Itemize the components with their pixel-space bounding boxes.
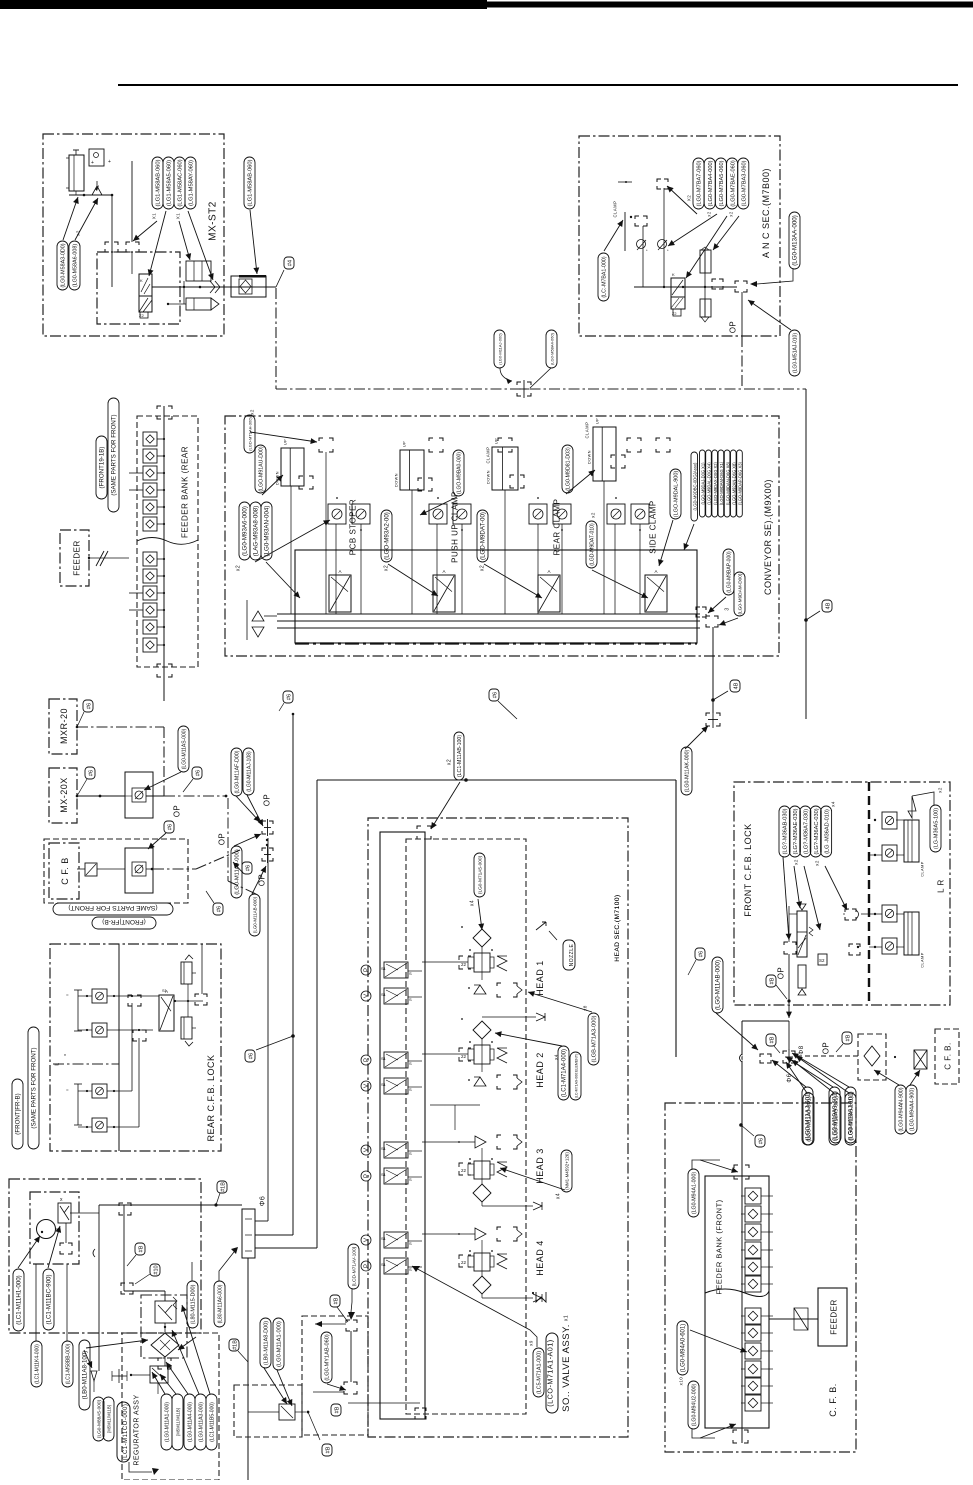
svg-text:(LG0-M9BAP-000): (LG0-M9BAP-000) [727, 551, 733, 593]
svg-text:(LGO-M9DAX-D0G X2): (LGO-M9DAX-D0G X2) [713, 461, 718, 504]
svg-text:SIDE CLAMP: SIDE CLAMP [649, 500, 658, 553]
svg-text:(LG0-M11AK-000): (LG0-M11AK-000) [685, 750, 691, 793]
svg-text:#6: #6 [86, 703, 92, 709]
svg-text:x2: x2 [447, 759, 453, 765]
svg-text:V: V [364, 1238, 370, 1242]
svg-text:(LG?-M36AC-030): (LG?-M36AC-030) [814, 808, 820, 854]
svg-text:x4: x4 [556, 1193, 562, 1199]
svg-text:S1: S1 [381, 1172, 387, 1177]
svg-text:S: S [409, 1241, 412, 1246]
svg-text:(LC:-M7BA1-000): (LC:-M7BA1-000) [602, 256, 608, 297]
svg-text:REAR CLAMP: REAR CLAMP [553, 498, 562, 555]
svg-text:x10: x10 [678, 1377, 683, 1386]
svg-text:(LG0-M94A1-000): (LG0-M94A1-000) [692, 1172, 698, 1215]
svg-text:CLAMP: CLAMP [920, 861, 924, 877]
svg-text:OP: OP [777, 967, 786, 980]
svg-text:(FRONT19-1B): (FRONT19-1B) [99, 447, 106, 489]
svg-text:OP: OP [822, 1042, 831, 1055]
svg-text:(LC1-M71A4-000): (LC1-M71A4-000) [562, 1049, 568, 1097]
svg-text:X2: X2 [686, 195, 691, 202]
svg-text:K: K [140, 278, 143, 283]
svg-text:X1: X1 [151, 213, 156, 220]
svg-text:OP: OP [729, 321, 738, 334]
svg-text:(LG0-M19A9-601): (LG0-M19A9-601) [832, 1091, 839, 1141]
svg-text:(LG1-M58AB-060): (LG1-M58AB-060) [156, 159, 162, 206]
svg-text:C F. B.: C F. B. [944, 1042, 953, 1070]
svg-text:#6: #6 [216, 906, 222, 912]
svg-text:NOZZLE: NOZZLE [569, 943, 575, 966]
svg-text:OP: OP [263, 794, 272, 807]
svg-text:3: 3 [725, 607, 731, 610]
svg-text:x2: x2 [236, 565, 242, 571]
svg-text:L: L [55, 1062, 61, 1065]
svg-text:x4: x4 [470, 900, 476, 906]
svg-text:(LG?-M36A7-030): (LG?-M36A7-030) [804, 809, 810, 854]
svg-text:S: S [409, 1087, 412, 1092]
svg-text:x9: x9 [528, 1340, 533, 1346]
svg-text:(LG1-M58A5-060): (LG1-M58A5-060) [167, 160, 173, 206]
svg-text:x2: x2 [814, 860, 819, 866]
svg-text:(LGB-M71A3-000): (LGB-M71A3-000) [592, 1015, 598, 1062]
svg-text:(LC5-M71A1-000): (LC5-M71A1-000) [537, 1351, 543, 1394]
svg-text:(LGD-M9DAT-010): (LGD-M9DAT-010) [590, 523, 596, 566]
svg-text:x2: x2 [937, 787, 942, 793]
svg-text:(LC1-M11CO-000): (LC1-M11CO-000) [123, 1404, 129, 1461]
svg-text:S1: S1 [162, 988, 168, 993]
svg-text:OP: OP [218, 833, 227, 846]
svg-text:x2: x2 [706, 211, 711, 217]
svg-text:#6: #6 [88, 770, 94, 776]
svg-text:HEAD 3: HEAD 3 [535, 1148, 545, 1184]
svg-text:MX-20X: MX-20X [59, 777, 69, 813]
svg-text:(LG0-M11A4-000): (LG0-M11A4-000) [188, 1402, 194, 1442]
svg-text:#6: #6 [195, 770, 201, 776]
svg-text:(LG0-M11AS-000): (LG0-M11AS-000) [182, 728, 188, 769]
svg-text:(LG0-M11AF-D00): (LG0-M11AF-D00) [235, 750, 241, 793]
svg-text:CLAMP: CLAMP [485, 447, 490, 464]
svg-text:(LG0-M11A3-000): (LG0-M11A3-000) [199, 1402, 205, 1442]
svg-text:S1: S1 [381, 992, 387, 997]
svg-text:(LG?-M36AE-030): (LG?-M36AE-030) [793, 808, 799, 854]
svg-text:(LG0-M94A0-601): (LG0-M94A0-601) [681, 1324, 687, 1372]
svg-text:(SAME PARTS FOR FRONT): (SAME PARTS FOR FRONT) [31, 1047, 38, 1128]
svg-text:(LG0-M11AJ-000): (LG0-M11AJ-000) [498, 333, 503, 365]
svg-text:22: 22 [461, 1260, 467, 1265]
svg-text:S2: S2 [819, 958, 825, 963]
svg-text:K: K [672, 272, 675, 277]
svg-text:(LGD-M9DAT-00): (LGD-M9DAT-00) [480, 512, 487, 560]
svg-text:(LGO-M9DAP-D6G X3): (LGO-M9DAP-D6G X3) [738, 461, 743, 504]
svg-text:V: V [364, 1148, 370, 1152]
svg-text:(LGO-M9DAL-900): (LGO-M9DAL-900) [674, 471, 680, 518]
svg-text:#B: #B [334, 1406, 340, 1413]
svg-text:(LC1-M11AB-100): (LC1-M11AB-100) [457, 735, 463, 777]
svg-text:#4: #4 [287, 260, 293, 266]
svg-text:REAR C.F.B. LOCK: REAR C.F.B. LOCK [206, 1054, 216, 1141]
svg-text:(LG0-M93AN-004): (LG0-M93AN-004) [264, 506, 271, 557]
svg-text:A N C SEC.(M7B00): A N C SEC.(M7B00) [761, 168, 771, 258]
svg-text:DOWN: DOWN [587, 450, 591, 464]
svg-text:HEAD 1: HEAD 1 [535, 960, 545, 996]
svg-text:x2: x2 [480, 565, 486, 571]
svg-text:A: A [654, 569, 657, 574]
svg-text:(LG1-M58AY-060): (LG1-M58AY-060) [189, 160, 195, 206]
svg-text:(LG0-M18AJ-101): (LG0-M18AJ-101) [848, 1091, 855, 1141]
svg-text:(LG0-M11A1-000): (LG0-M11A1-000) [165, 1402, 171, 1442]
svg-text:FRONT C.F.B. LOCK: FRONT C.F.B. LOCK [743, 823, 753, 916]
svg-text:REGURATOR ASSY: REGURATOR ASSY [133, 1394, 140, 1465]
svg-text:A: A [442, 569, 445, 574]
svg-text:(LC1-M11H1-000): (LC1-M11H1-000) [16, 1275, 23, 1324]
svg-text:(LG0-M13AA-000): (LG0-M13AA-000) [792, 215, 799, 266]
svg-text:MXR-20: MXR-20 [59, 708, 69, 744]
svg-text:(LC1-M58BB-000): (LC1-M58BB-000) [66, 1343, 72, 1384]
svg-text:x1: x1 [564, 1315, 570, 1321]
svg-text:(LG0-M9DAM-D00): (LG0-M9DAM-D00) [738, 573, 744, 614]
svg-text:#B: #B [325, 1446, 331, 1453]
svg-text:V: V [364, 1084, 370, 1088]
svg-text:=: = [66, 992, 69, 997]
svg-text:#B: #B [138, 1245, 144, 1252]
svg-text:#6: #6 [698, 951, 704, 957]
svg-text:4B: 4B [825, 602, 831, 609]
svg-text:S: S [409, 1177, 412, 1182]
svg-text:(LG1-M58AB-060): (LG1-M58AB-060) [248, 159, 254, 206]
svg-text:FEEDER: FEEDER [73, 540, 82, 575]
svg-text:+: + [91, 160, 94, 166]
svg-text:S1: S1 [381, 966, 387, 971]
svg-text:A: A [338, 569, 341, 574]
svg-text:(L80-M115-D00): (L80-M115-D00) [191, 1284, 197, 1324]
svg-text:(LG0-M11AJ-601): (LG0-M11AJ-601) [805, 1091, 812, 1140]
svg-text:(LG0-M7BA3-060): (LG0-M7BA3-060) [742, 160, 748, 206]
svg-text:(LG0-M7BA5-060): (LG0-M7BA5-060) [719, 160, 725, 206]
svg-text:(LG0-M51AJ-010): (LG0-M51AJ-010) [793, 333, 799, 373]
svg-text:(LC1-M11BC-900): (LC1-M11BC-900) [46, 1274, 53, 1324]
svg-text:CONVEYOR SE).(M9X00): CONVEYOR SE).(M9X00) [763, 479, 773, 595]
svg-text:(LC1-M11B5-000): (LC1-M11B5-000) [210, 1402, 216, 1442]
svg-text:*: * [64, 1054, 66, 1060]
svg-text:(LGO-M9DAJ-D0G X1): (LGO-M9DAJ-D0G X1) [701, 462, 706, 505]
svg-text:MX-ST2: MX-ST2 [207, 201, 218, 241]
svg-text:(LCD-M71AV-100): (LCD-M71AV-100) [352, 1246, 358, 1286]
svg-text:+: + [108, 159, 111, 165]
svg-text:UP: UP [595, 418, 599, 424]
svg-text:(NM1-M4592+120): (NM1-M4592+120) [565, 1152, 570, 1190]
svg-text:(LC1-M11K4-000): (LC1-M11K4-000) [35, 1344, 41, 1384]
svg-text:FEEDER BANK (FRONT): FEEDER BANK (FRONT) [714, 1199, 723, 1294]
svg-text:(LC-M71A9-000:ELEMENT): (LC-M71A9-000:ELEMENT) [575, 1054, 579, 1099]
svg-text:(M5M11/M11B): (M5M11/M11B) [176, 1407, 181, 1436]
svg-text:(LAG-M93A8-008): (LAG-M93A8-008) [253, 506, 260, 557]
svg-text:(LG0-M88A5-000): (LG0-M88A5-000) [97, 1399, 103, 1438]
svg-text:Z2: Z2 [672, 312, 676, 316]
svg-text:22: 22 [461, 1054, 467, 1059]
svg-text:S: S [409, 1267, 412, 1272]
svg-text:(LG0-M11AB-000): (LG0-M11AB-000) [715, 960, 722, 1010]
svg-text:Φ8: Φ8 [799, 1045, 805, 1054]
svg-text:P: P [364, 1174, 370, 1178]
svg-text:X1: X1 [175, 213, 180, 220]
svg-text:FEEDER BANK (REAR: FEEDER BANK (REAR [181, 446, 190, 538]
svg-text:P: P [364, 1058, 370, 1062]
svg-text:#6: #6 [167, 824, 173, 830]
svg-text:(LGO-M91AU-D00): (LGO-M91AU-D00) [259, 446, 265, 491]
svg-text:(LG0-M58A6-008): (LG0-M58A6-008) [73, 244, 79, 288]
svg-text:V: V [364, 994, 370, 998]
svg-text:(LG0-M9D81-D03): (LG0-M9D81-D03) [566, 447, 572, 491]
svg-text:(FRONT|FR-B): (FRONT|FR-B) [102, 918, 146, 925]
svg-text:UP: UP [402, 441, 406, 447]
svg-text:HEAD SEC.(M7100): HEAD SEC.(M7100) [614, 894, 621, 961]
svg-text:#1B: #1B [232, 1340, 238, 1350]
svg-text:(LG0-M7BAE-060): (LG0-M7BAE-060) [730, 160, 736, 207]
svg-text:A: A [547, 569, 550, 574]
svg-text:#B: #B [769, 977, 775, 984]
svg-text:C. F. B.: C. F. B. [828, 1383, 838, 1417]
svg-text:(LG0-M11AJ-000): (LG0-M11AJ-000) [235, 849, 241, 895]
svg-text:(LCO-M71A1-A01): (LCO-M71A1-A01) [545, 1339, 554, 1406]
svg-text:(LG0-M58A3-0D0): (LG0-M58A3-0D0) [61, 243, 67, 287]
svg-text:(LG0-M7BA4-000): (LG0-M7BA4-000) [708, 160, 714, 206]
svg-text:(M5M11/M11B): (M5M11/M11B) [107, 1404, 112, 1433]
svg-text:(LG0-M58A4-060): (LG0-M58A4-060) [550, 332, 555, 365]
svg-text:(LG0-M94U2-000): (LG0-M94U2-000) [692, 1383, 698, 1426]
svg-text:S: S [409, 997, 412, 1002]
svg-text:x4: x4 [830, 801, 835, 807]
svg-text:x2: x2 [793, 859, 798, 865]
svg-text:HEAD 2: HEAD 2 [535, 1052, 545, 1088]
svg-text:(LG0-M11AB-000): (LG0-M11AB-000) [253, 896, 258, 933]
svg-text:#6: #6 [758, 1138, 764, 1144]
svg-text:x2: x2 [249, 409, 254, 415]
svg-text:(L80-M11A6-000): (L80-M11A6-000) [218, 1284, 224, 1323]
svg-text:P: P [364, 1264, 370, 1268]
svg-text:(FRONT|FR-B): (FRONT|FR-B) [15, 1093, 22, 1134]
svg-text:SO.. VALVE ASSY.: SO.. VALVE ASSY. [561, 1324, 572, 1412]
svg-text:x2: x2 [590, 512, 595, 518]
svg-text:x2: x2 [728, 211, 733, 217]
svg-text:#B: #B [845, 1034, 851, 1041]
svg-text:(LGO-M9DAM-D6G X1): (LGO-M9DAM-D6G X1) [719, 461, 724, 505]
svg-text:(LG0-M93A6-000): (LG0-M93A6-000) [242, 506, 249, 556]
svg-text:FEEDER: FEEDER [830, 1299, 839, 1334]
svg-text:(LG0-M11AJ-108): (LG0-M11AJ-108) [247, 751, 253, 792]
svg-text:DOWN: DOWN [486, 470, 490, 484]
svg-text:(LG0-M94AN-900): (LG0-M94AN-900) [899, 1087, 905, 1131]
svg-text:#6: #6 [492, 692, 498, 698]
svg-text:CLAMP: CLAMP [920, 952, 924, 968]
svg-text:L R: L R [937, 879, 946, 893]
svg-text:#B: #B [333, 1297, 339, 1304]
svg-text:(LG0-M71A5-000): (LG0-M71A5-000) [478, 855, 484, 894]
svg-text:DOWN: DOWN [394, 473, 398, 487]
svg-text:#6: #6 [245, 865, 251, 871]
svg-text:(LG0-M94A4-900): (LG0-M94A4-900) [910, 1088, 916, 1132]
svg-text:P: P [364, 968, 370, 972]
svg-text:S1: S1 [381, 1236, 387, 1241]
svg-text:C F. B: C F. B [60, 857, 70, 885]
svg-text:(LGO-M92AN-D6G X8): (LGO-M92AN-D6G X8) [732, 462, 737, 505]
svg-text:(LGO-M93A2-00): (LGO-M93A2-00) [384, 512, 391, 560]
svg-text:#6: #6 [248, 1053, 254, 1059]
svg-text:(LG0-M7BA7-060): (LG0-M7BA7-060) [697, 160, 703, 206]
svg-text:(LB0-M11A8-D00): (LB0-M11A8-D00) [264, 1321, 270, 1365]
svg-text:(LGO-M9DAN-D6G X8): (LGO-M9DAN-D6G X8) [725, 461, 730, 505]
svg-text:S1: S1 [381, 1056, 387, 1061]
svg-text:(LGD-MT1AH-300): (LGD-MT1AH-300) [248, 417, 253, 451]
svg-text:Φ6: Φ6 [259, 1196, 266, 1206]
svg-text:(LG0-M11A1-000): (LG0-M11A1-000) [277, 1321, 283, 1367]
svg-text:UP: UP [283, 439, 287, 445]
svg-text:4B: 4B [733, 682, 739, 689]
svg-text:x2: x2 [384, 565, 390, 571]
svg-text:S1: S1 [381, 1146, 387, 1151]
svg-text:(LG1-M58AC-060): (LG1-M58AC-060) [178, 159, 184, 206]
svg-text:(SAME PARTS FOR FRONT): (SAME PARTS FOR FRONT) [68, 904, 157, 911]
svg-text:PUSH UP CLAMP: PUSH UP CLAMP [451, 491, 460, 563]
svg-text:CLAMP: CLAMP [612, 201, 617, 218]
svg-text:x4: x4 [553, 1054, 558, 1060]
svg-text:PCB STOPER: PCB STOPER [349, 499, 358, 555]
svg-text:S: S [409, 1151, 412, 1156]
svg-text:22: 22 [461, 962, 467, 967]
svg-text:(LG-M36A5-100): (LG-M36A5-100) [934, 808, 940, 849]
svg-text:(LGD-M9DBC-0DG(Assy): (LGD-M9DBC-0DG(Assy) [692, 462, 697, 511]
svg-text:S1: S1 [381, 1082, 387, 1087]
svg-text:(SAME PARTS FOR FRONT): (SAME PARTS FOR FRONT) [111, 414, 118, 495]
svg-text:(LG?-M36AB-030): (LG?-M36AB-030) [783, 808, 789, 854]
svg-text:Z2: Z2 [139, 313, 144, 318]
svg-text:HEAD 4: HEAD 4 [535, 1240, 545, 1276]
svg-text:CLAMP: CLAMP [584, 422, 589, 439]
svg-text:(LGO-M9DAL-D0G X4): (LGO-M9DAL-D0G X4) [707, 462, 712, 505]
svg-text:S: S [409, 971, 412, 976]
svg-text:=: = [66, 1087, 69, 1092]
svg-text:S1: S1 [381, 1262, 387, 1267]
svg-text:#B: #B [769, 1036, 775, 1043]
svg-text:(LGO-M9BA0-000): (LGO-M9BA0-000) [457, 452, 463, 494]
svg-text:OP: OP [173, 805, 182, 818]
svg-text:S: S [409, 1061, 412, 1066]
svg-text:#1B: #1B [220, 1182, 226, 1192]
svg-text:(LG -M36AD-010): (LG -M36AD-010) [824, 809, 830, 854]
svg-text:#6: #6 [286, 694, 292, 700]
svg-text:22: 22 [461, 1168, 467, 1173]
svg-text:#10: #10 [153, 1265, 159, 1274]
svg-text:(LG0-MY1AB-060): (LG0-MY1AB-060) [325, 1334, 331, 1381]
